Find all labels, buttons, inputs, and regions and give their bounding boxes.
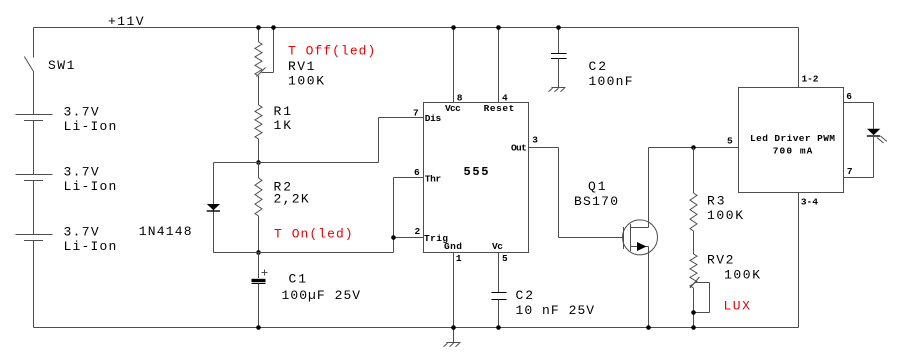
svg-text:C2: C2 (589, 59, 607, 74)
label pin 6 (414, 167, 420, 178)
label pin 8 (457, 92, 463, 103)
wire +11V top rail (34, 27, 799, 29)
label pin 2 (415, 226, 421, 237)
svg-text:BS170: BS170 (574, 194, 618, 209)
svg-text:Thr: Thr (425, 173, 442, 184)
label C2 (100nF) (589, 59, 633, 89)
label 1N4148 (139, 224, 192, 239)
ground symbol below C2 (549, 88, 566, 92)
svg-text:RV2: RV2 (707, 253, 733, 268)
label pin 6 (846, 91, 852, 102)
wire mid horizontal (214, 252, 394, 254)
LED D2 (867, 129, 887, 143)
node junction R2/C1 (256, 250, 261, 255)
svg-text:100K: 100K (724, 268, 760, 283)
label Led Driver PWM (750, 133, 835, 156)
svg-text:3-4: 3-4 (801, 197, 818, 208)
svg-text:6: 6 (846, 91, 852, 102)
battery B3 3.7V Li-Ion (16, 235, 53, 241)
node junction RV2 wiper (691, 310, 696, 315)
potentiometer RV1 100K (255, 28, 262, 106)
label T Off(led) (288, 44, 375, 59)
capacitor C1 100uF 25V (252, 253, 268, 328)
svg-text:5: 5 (502, 253, 508, 264)
label R3 (707, 194, 743, 224)
pin 7 Dis (379, 118, 424, 163)
svg-text:100µF 25V: 100µF 25V (282, 288, 361, 303)
pin 1-2 wire (798, 28, 800, 88)
label LUX (724, 299, 751, 314)
IC U2 Led Driver PWM box (739, 88, 844, 193)
svg-text:8: 8 (457, 92, 463, 103)
label Q1 (574, 179, 618, 209)
label pin 5 (502, 253, 508, 264)
node junction R3 top (691, 145, 696, 150)
resistor R3 100K (690, 148, 697, 255)
label R2 (274, 180, 309, 207)
node junction Reset rail (496, 25, 501, 30)
battery B1 3.7V Li-Ion (16, 115, 53, 121)
svg-text:Vc: Vc (492, 241, 503, 252)
node junction RV1 top (256, 25, 261, 30)
svg-text:2: 2 (415, 226, 421, 237)
svg-text:6: 6 (414, 167, 420, 178)
node junction C2 bottom rail (496, 325, 501, 330)
svg-text:7: 7 (847, 166, 853, 177)
diode D1 1N4148 (207, 163, 220, 253)
node junction Trig/Thr (391, 235, 396, 240)
op-amp U1 555 box (424, 103, 529, 253)
pin 6 Thr (394, 178, 424, 253)
label Vcc (445, 103, 461, 114)
node junction C2 rail (556, 25, 561, 30)
label pin 4 (502, 92, 508, 103)
svg-text:Reset: Reset (484, 103, 515, 114)
wire switch to battery B1 (33, 72, 35, 115)
wire LED to pin 7 (844, 136, 874, 178)
pin 2 Trig (394, 237, 424, 239)
label pin 3-4 (801, 197, 818, 208)
label B2 value (64, 165, 117, 194)
wire drain up to pin5 net (648, 148, 650, 228)
svg-text:Led Driver PWM: Led Driver PWM (750, 133, 835, 144)
switch SW1 (24, 57, 33, 72)
node junction RV1 wiper top (271, 25, 276, 30)
svg-text:4: 4 (502, 92, 508, 103)
potentiometer RV2 100K (690, 254, 697, 328)
label RV1 (288, 59, 324, 89)
pin 4 Reset (498, 28, 500, 103)
battery B2 3.7V Li-Ion (16, 175, 53, 181)
label RV2 (707, 253, 760, 283)
svg-text:SW1: SW1 (48, 58, 75, 73)
label B1 value (64, 105, 117, 134)
svg-text:R1: R1 (274, 104, 292, 119)
node junction source rail (646, 325, 651, 330)
capacitor C2 10nF 25V (492, 293, 507, 328)
svg-text:C1: C1 (289, 272, 307, 287)
label Dis (425, 113, 442, 124)
label pin 7 (413, 108, 419, 119)
wiper RV2 (690, 277, 710, 313)
node junction Gnd rail (451, 325, 456, 330)
label B3 value (64, 225, 117, 254)
svg-text:10 nF 25V: 10 nF 25V (516, 303, 595, 318)
svg-text:3.7V: 3.7V (64, 105, 99, 120)
svg-text:2,2K: 2,2K (274, 192, 309, 207)
resistor R1 1K (255, 105, 262, 163)
label Reset (484, 103, 515, 114)
transistor Q1 BS170 MOSFET (623, 220, 658, 255)
svg-text:C2: C2 (516, 288, 534, 303)
svg-text:Out: Out (511, 143, 527, 154)
wire bottom ground rail (34, 327, 799, 329)
svg-text:1K: 1K (274, 118, 292, 133)
svg-text:3: 3 (532, 134, 538, 145)
wire pin5 net (drain to led driver) (649, 147, 739, 149)
node junction Vcc rail (451, 25, 456, 30)
label Gnd (444, 241, 462, 252)
wire B3 to bottom rail (33, 241, 35, 328)
svg-text:3.7V: 3.7V (64, 165, 99, 180)
wire source down to rail (648, 247, 650, 328)
label C2 (10nF) (516, 288, 595, 318)
resistor R2 2,2K (255, 163, 262, 253)
label Thr (425, 173, 442, 184)
label Out (511, 143, 527, 154)
svg-text:LUX: LUX (724, 299, 751, 314)
label Vc (492, 241, 503, 252)
label C1 (282, 272, 361, 304)
svg-text:Gnd: Gnd (444, 241, 462, 252)
svg-text:3.7V: 3.7V (64, 225, 99, 240)
svg-text:100K: 100K (288, 74, 324, 89)
pin 8 Vcc (453, 28, 455, 103)
label R1 (274, 104, 292, 133)
label Trig (424, 233, 448, 244)
node junction C1 bottom (256, 325, 261, 330)
pin 1 Gnd (453, 253, 455, 343)
wire B2 to B3 (33, 181, 35, 235)
pin 6 wire to LED (844, 103, 874, 129)
label pin 7 (847, 166, 853, 177)
svg-text:5: 5 (727, 136, 733, 147)
svg-text:100nF: 100nF (589, 74, 633, 89)
label pin 5 (727, 136, 733, 147)
svg-text:T On(led): T On(led) (274, 227, 353, 242)
wiper RV1 (257, 28, 274, 77)
label T On(led) (274, 227, 353, 242)
svg-text:R3: R3 (707, 194, 725, 209)
svg-text:+11V: +11V (108, 14, 144, 29)
svg-text:T Off(led): T Off(led) (288, 44, 375, 59)
svg-text:555: 555 (464, 165, 489, 179)
label SW1 (48, 58, 75, 73)
ground symbol below 555 (444, 343, 461, 347)
svg-text:1: 1 (456, 253, 462, 264)
wire rail to switch (33, 28, 35, 58)
svg-text:1-2: 1-2 (802, 73, 819, 84)
svg-text:100K: 100K (707, 208, 743, 223)
wire node to Dis branch (214, 162, 379, 164)
svg-text:7: 7 (413, 108, 419, 119)
svg-text:700 mA: 700 mA (773, 145, 813, 156)
label pin 1 (456, 253, 462, 264)
node junction R1/R2 (256, 160, 261, 165)
node junction RV2 bottom rail (691, 325, 696, 330)
label pin 3 (532, 134, 538, 145)
svg-text:Q1: Q1 (588, 179, 606, 194)
capacitor C2 100nF (551, 28, 567, 88)
node +11V (108, 14, 144, 29)
svg-text:Vcc: Vcc (445, 103, 461, 114)
pin 5 Vc (498, 253, 500, 293)
wire B1 to B2 (33, 121, 35, 175)
pin 3-4 wire (798, 193, 800, 328)
svg-text:Dis: Dis (425, 113, 442, 124)
label 555 (464, 165, 489, 179)
pin 3 Out (529, 148, 624, 238)
label pin 1-2 (802, 73, 819, 84)
svg-text:RV1: RV1 (288, 59, 315, 74)
